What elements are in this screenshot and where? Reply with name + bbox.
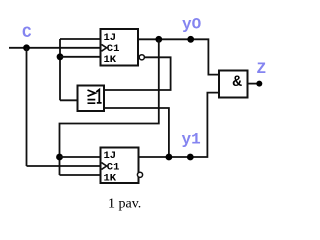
svg-text:Z: Z: [257, 60, 267, 78]
clock wedge of U3: [102, 163, 107, 170]
wire: C to FF2 C1 pin: [27, 165, 102, 167]
svg-text:&: &: [233, 73, 243, 91]
svg-text:C: C: [22, 24, 32, 42]
wire: input C horizontal to FF1 C1 pin: [9, 47, 101, 49]
flip-flop U1 body: [101, 29, 139, 66]
wire: K1 input: [60, 56, 101, 58]
node: junction dot on C wire: [23, 44, 30, 51]
node: marker dot under label y0: [187, 36, 194, 43]
wire: K2 input: [60, 174, 102, 176]
node: junction dot y0 to cross-coupling: [155, 36, 162, 43]
svg-text:1 pav.: 1 pav.: [108, 197, 141, 212]
node: junction dot y1 from OR input: [166, 154, 173, 161]
node: junction dot at J2: [56, 154, 63, 161]
node: junction dot at K1: [57, 53, 64, 60]
wire: Z output: [248, 83, 258, 85]
and-gate U4 body: [219, 71, 248, 98]
node: marker dot under label y1: [187, 154, 194, 161]
svg-text:1K: 1K: [104, 172, 117, 184]
clock wedge of U1: [102, 44, 107, 51]
wire: U1 Qbar to OR gate right side: [104, 57, 171, 90]
wire: OR gate left input: [60, 99, 78, 101]
inverted output bubble of U3: [137, 172, 142, 177]
svg-text:y1: y1: [182, 130, 201, 148]
wire: U1 Q output (y0) to AND gate: [138, 39, 219, 74]
wire: OR right side to y1 net: [104, 108, 169, 157]
wire: J2 input: [60, 156, 102, 158]
svg-text:1K: 1K: [104, 54, 117, 66]
wire: J1 input: [60, 38, 101, 40]
wire: vertical net J1/K1 to OR input: [59, 39, 61, 100]
flip-flop U3 body: [101, 148, 139, 184]
wire: cross-coupling y0 down to FF2 J/K: [60, 39, 159, 175]
wire: U3 Q output (y1) to AND gate: [139, 93, 220, 157]
wire: C vertical drop to FF2: [26, 48, 28, 166]
svg-text:yO: yO: [182, 16, 202, 34]
label >=1 of U2: [88, 90, 96, 103]
or-gate U2 body: [78, 86, 105, 112]
node: Z endpoint dot: [256, 81, 262, 87]
svg-text:1J: 1J: [104, 150, 117, 162]
inverted output bubble of U1: [139, 55, 144, 60]
